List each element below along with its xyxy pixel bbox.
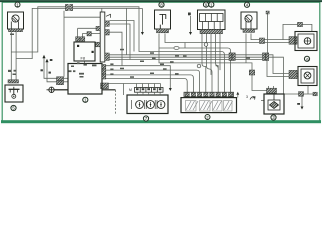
tiny junction mark on arrow wire	[41, 69, 43, 71]
main harness bar	[100, 12, 105, 62]
box9 relay slots hatched	[186, 101, 233, 110]
junction circle b	[197, 64, 201, 68]
wire stub top wires to bar top	[101, 8, 103, 12]
box8 instrument cluster	[127, 95, 168, 114]
component 2 box (switch)	[155, 10, 171, 29]
tiny label mark 2	[49, 72, 51, 74]
plug pair to box5	[289, 37, 297, 45]
harness bar left square	[96, 42, 101, 47]
wire branch to bar top	[64, 16, 100, 18]
component 2 circled number	[159, 2, 164, 7]
arrow down at x190	[189, 32, 192, 35]
wire from up-arrow A to connector	[44, 58, 57, 78]
oval wire marker on y48	[174, 47, 179, 50]
box8 pin cell marks	[136, 88, 161, 90]
circled number near ground	[83, 97, 88, 102]
box7 bottom right	[264, 94, 284, 114]
harness bar right squares top	[105, 21, 109, 26]
F8 connector squares	[76, 37, 80, 41]
wire comp3 pin5 to cell7	[219, 34, 221, 70]
tiny label left of x302 arrow	[297, 103, 300, 105]
wire pinrow drop4	[154, 84, 156, 88]
wire connector stub 2	[64, 81, 69, 83]
inline connector on wire to box5	[260, 38, 265, 44]
arrow right of box8	[169, 88, 172, 91]
wire branch pin1 to top run A	[11, 7, 224, 92]
inline connector box7 bus	[249, 70, 254, 75]
wire bus to arrow right of box8	[106, 66, 171, 90]
wire F8 connector to bar	[92, 33, 101, 35]
harness bar right squares lower stack	[105, 53, 109, 60]
wire pinrow drop5	[160, 84, 162, 88]
wire bus to box6 pin1	[110, 55, 299, 74]
wire F8 top stub1	[77, 28, 79, 37]
box7 ground squiggle	[250, 97, 255, 100]
wire stub arrow at x142	[141, 8, 143, 32]
box7 circled number	[271, 115, 276, 120]
bottom-left box (sensor)	[5, 85, 23, 102]
F8 connector to bar square	[87, 32, 91, 36]
label mark above arrow x190	[188, 13, 191, 16]
wire F8 top stub2 to bar	[83, 34, 87, 37]
plug at harness bar bottom	[101, 83, 109, 89]
wire riser into box6 bottom	[307, 86, 309, 95]
svg-text:F8: F8	[81, 57, 85, 61]
component 1 circled number	[15, 2, 20, 7]
component 4 connector strip	[243, 29, 255, 32]
box7 connector strip	[267, 88, 277, 93]
tiny label right of arrows	[50, 59, 53, 61]
wire bar sq2 cascade	[110, 32, 123, 65]
bottom-left connector strip	[8, 80, 19, 83]
wire drop from top run B	[125, 8, 127, 54]
box8 circled number	[143, 116, 148, 121]
inline connector on box5 top wire	[298, 22, 303, 26]
wire bar sq1 cascade a	[110, 21, 135, 52]
arrow symbol mid-left up B	[45, 59, 48, 62]
wire pinrow drop1	[136, 84, 138, 88]
wire F8 link horizontal to bar	[78, 27, 96, 29]
wire bus to cell2	[106, 75, 194, 92]
box9 relay box body	[181, 98, 237, 113]
wire pinrow drop3	[148, 84, 150, 88]
control unit interior labels	[71, 65, 97, 78]
wire branch pin2 to top run B	[16, 8, 142, 58]
arrow down at x302	[301, 107, 304, 110]
fuse box F8	[74, 42, 95, 61]
wire connector drop long vertical	[63, 11, 65, 77]
box8 pin stubs	[137, 92, 160, 95]
wire comp3 pin2 to cell4	[207, 34, 213, 92]
box5 right upper	[295, 32, 317, 51]
box9 relay box pin row	[184, 92, 234, 97]
wire comp1 pin2 down	[15, 32, 17, 80]
inline connector middle band left	[229, 53, 232, 61]
wire pinrow horiz	[109, 83, 161, 85]
inline connector top run (two squares)	[65, 4, 68, 10]
border frame top dark edge	[0, 0, 322, 2]
wire bus to box6 bottom	[110, 57, 317, 94]
wire loop tick at x185	[184, 43, 186, 49]
wire from up-arrow B to connector	[47, 62, 57, 82]
wire F8 right to bar square	[94, 44, 97, 46]
box7 top stubs	[268, 86, 270, 88]
wire pinrow drop2	[142, 84, 144, 88]
wire comp4 pin1 down join bus	[245, 34, 247, 63]
box9 pin row cells	[185, 93, 233, 96]
small arrow right of pin row	[236, 92, 239, 95]
harness bar left square upper	[96, 26, 100, 30]
wire comp2 pin1 to box7	[159, 34, 267, 91]
svg-text:3: 3	[246, 95, 248, 99]
wire into box8 top-left	[123, 84, 125, 96]
control unit right-edge squares	[102, 65, 106, 69]
ground bus thick	[54, 89, 68, 91]
wire comp4 pin2 to box5 pin1	[251, 34, 295, 40]
component 3 box (multi switch)	[198, 10, 226, 30]
border bottom band	[1, 120, 321, 123]
wire comp3 pin1 to cell3	[202, 34, 206, 92]
wire box7 ground squiggle link	[261, 100, 264, 102]
inline connector ground feed	[57, 77, 64, 81]
wire bus to cell5	[106, 70, 200, 92]
inline connector at right end of bottom wire	[313, 92, 317, 96]
wire comp1 pin1 down	[10, 32, 12, 80]
wire comp3 pin3 to cell5	[210, 34, 212, 75]
wire comp2 pin2 to box5 pin2	[165, 34, 295, 43]
component 3 circled numbers	[203, 2, 214, 7]
thick corner at bar bottom	[102, 89, 116, 91]
component 1 box (pump motor)	[8, 12, 24, 29]
ground symbol	[47, 87, 55, 92]
arrow down at x142	[141, 32, 144, 35]
tiny wire code labels	[8, 34, 250, 78]
arrow symbol mid-left up A	[42, 55, 45, 58]
wire box5 top branch	[283, 24, 312, 39]
plug pair to box6	[289, 70, 297, 78]
component 4 circled number	[244, 2, 249, 7]
stub at x267.6 top	[267, 14, 269, 53]
svg-text:M: M	[129, 88, 132, 92]
wire comp2 branch to cell8	[159, 48, 231, 92]
circled number between right boxes	[304, 56, 309, 62]
box9 circled number	[205, 115, 210, 120]
box6 right lower (lamp)	[298, 67, 317, 86]
component 3 connector strip	[200, 30, 223, 34]
component 2 connector strip	[157, 29, 169, 33]
junction circle a	[204, 43, 208, 47]
wire connector stubs to control unit	[64, 77, 69, 79]
wire F8 bottom stub	[84, 61, 86, 64]
wire bar sq1 cascade b	[110, 24, 131, 60]
harness flag symbol	[106, 14, 111, 17]
border frame	[2, 2, 320, 122]
bottom-left circled number	[11, 105, 16, 110]
inline connector middle band right	[263, 53, 266, 61]
wire box7 arrow stub	[301, 94, 303, 107]
dashed mechanical link	[115, 90, 117, 114]
wire comp3 pin4 to cell6	[216, 34, 219, 92]
wire comp3 left arrow stub	[190, 16, 192, 32]
wire bus to box6 pin2	[110, 60, 299, 77]
component 1 connector strip	[9, 29, 23, 32]
inline connector box6 bottom wire	[299, 92, 304, 97]
main control unit box	[68, 64, 102, 95]
wire bus to cell1	[102, 79, 187, 93]
component 4 box (pump motor)	[241, 12, 257, 29]
box8 pin row	[135, 88, 164, 93]
